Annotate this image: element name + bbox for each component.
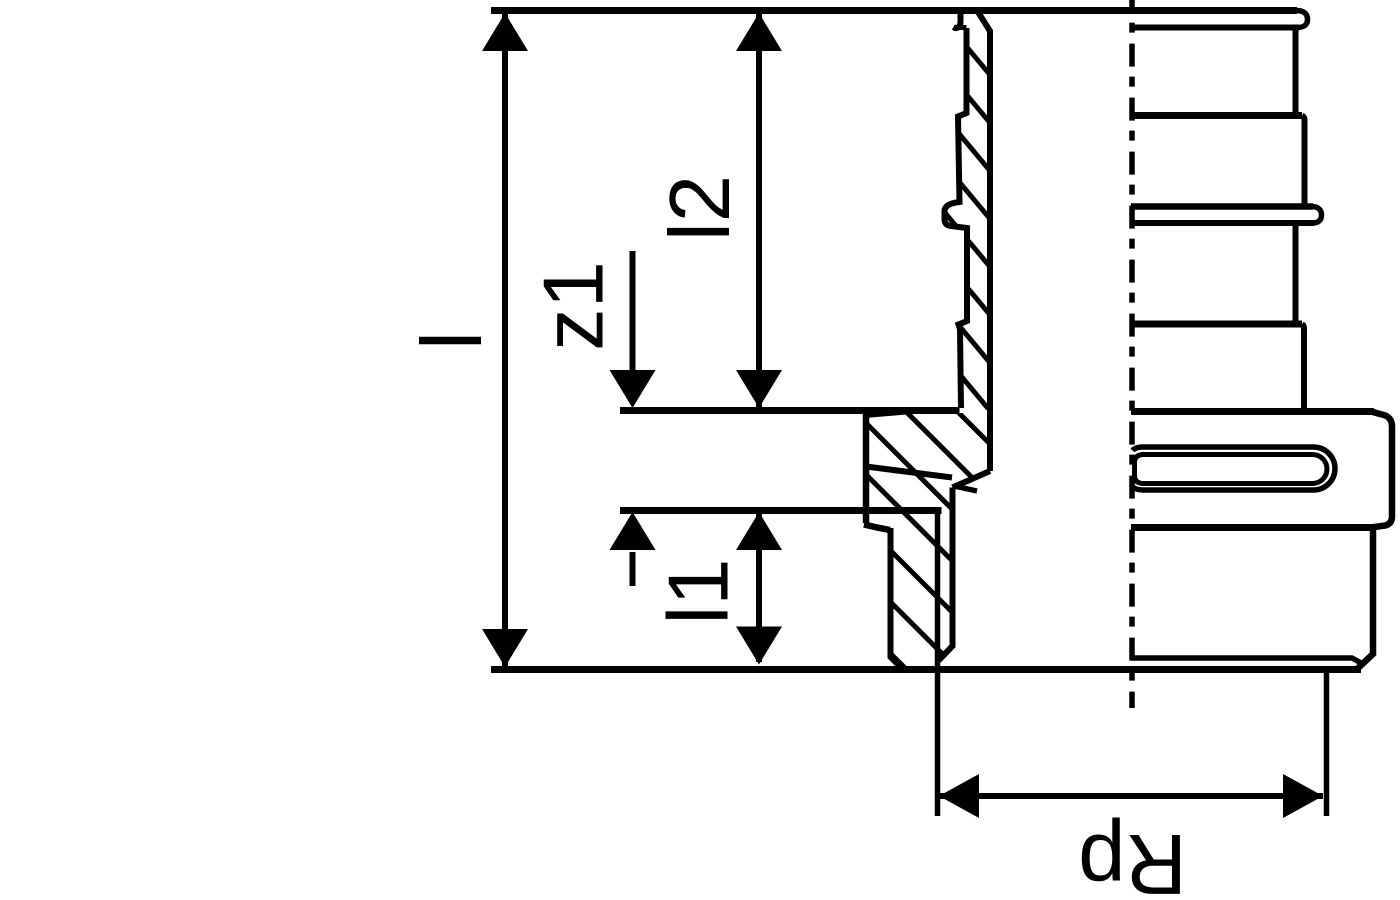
- ring2 bottom: [1131, 220, 1314, 226]
- bore line mid: [939, 488, 953, 661]
- top line: [491, 7, 1297, 14]
- svg-text:l: l: [405, 331, 500, 350]
- arrow Rp right: [1283, 774, 1323, 818]
- arrow l top: [482, 13, 528, 51]
- arrow l1 down: [736, 627, 782, 665]
- svg-text:l1: l1: [652, 558, 747, 624]
- wall hook jog: [954, 25, 967, 30]
- arrow l1 up: [736, 512, 782, 550]
- ring1 cap: [1297, 11, 1308, 28]
- cylinder1: [1293, 27, 1299, 113]
- arrow l2 top: [736, 13, 782, 51]
- funnel second line: [954, 486, 977, 491]
- flange bottom jog: [864, 525, 890, 531]
- svg-text:l2: l2: [653, 175, 748, 241]
- wall outer profile: [945, 28, 968, 408]
- dim l1 stem: [756, 514, 762, 662]
- svg-text:Rp: Rp: [1078, 816, 1187, 900]
- band1: [1302, 116, 1305, 206]
- dim l stem: [502, 13, 508, 667]
- Rp extension right: [1324, 672, 1330, 816]
- ring2 cap: [1312, 207, 1322, 224]
- dim l1 half stem: [630, 552, 636, 586]
- arrow l2 bottom: [736, 370, 782, 408]
- svg-text:z1: z1: [527, 261, 622, 351]
- dim z1 stem: [630, 251, 636, 372]
- arrow l1 half: [610, 512, 656, 550]
- thread boss edge: [1357, 530, 1373, 669]
- dim Rp stem: [939, 793, 1323, 799]
- centerline: [1129, 0, 1135, 708]
- ring2 top: [1131, 203, 1313, 210]
- arrow l bottom: [482, 629, 528, 667]
- wall barb hook: [954, 13, 961, 28]
- band2: [1302, 324, 1304, 408]
- shoulder line B: [620, 507, 942, 514]
- flange right edge: [1371, 412, 1392, 528]
- funnel chamfer: [953, 471, 991, 488]
- dim l2 stem: [756, 13, 762, 407]
- thread chamfer line: [1132, 658, 1362, 664]
- flange top right: [1131, 408, 1374, 415]
- arrow z1: [610, 370, 656, 408]
- thread major line + Rp extension left: [935, 511, 941, 816]
- hatching: flange + thread wall (45 deg): [820, 274, 1060, 823]
- slot outer: [1133, 447, 1336, 490]
- flange bottom right: [1131, 524, 1374, 531]
- arrow Rp left: [939, 774, 979, 818]
- hatching: barb tube wall (50 deg): [940, 15, 1010, 435]
- shoulder line A: [620, 407, 960, 414]
- ring1 bottom: [1131, 25, 1299, 31]
- step2: [1131, 321, 1302, 328]
- bottom line: [491, 666, 1361, 673]
- wall inner edge: [978, 12, 990, 471]
- step1: [1131, 112, 1302, 119]
- slot inner: [1135, 455, 1327, 484]
- flange top sliver: [865, 412, 912, 416]
- flange internal line: [866, 467, 952, 478]
- cylinder2: [1293, 224, 1299, 322]
- arrowheads: [482, 13, 1323, 818]
- thread wall outer: [891, 528, 903, 669]
- flange left edge: [863, 410, 870, 523]
